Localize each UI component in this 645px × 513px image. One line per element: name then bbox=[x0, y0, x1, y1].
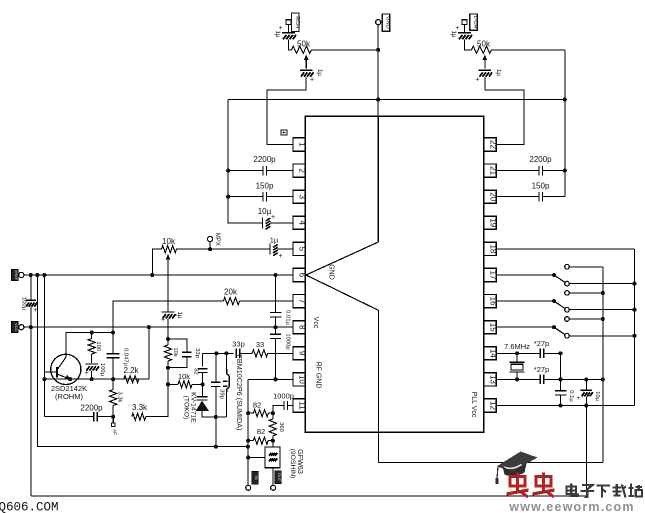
svg-text:100µ: 100µ bbox=[21, 297, 27, 311]
wire pin 13 row bbox=[496, 378, 540, 380]
junction xtal bottom bbox=[515, 377, 519, 381]
wire bus to 150p bbox=[228, 196, 263, 198]
capacitor 0.1u bbox=[555, 390, 574, 402]
capacitor 100u (rail) bbox=[21, 297, 38, 314]
svg-text:2200p: 2200p bbox=[529, 155, 552, 164]
wire pin10 row bbox=[248, 378, 293, 380]
wire wiper cap to pin 22 bbox=[485, 77, 524, 145]
junction base-vert/row bbox=[42, 377, 46, 381]
svg-text:1µ: 1µ bbox=[316, 69, 323, 76]
label Vcc box bbox=[12, 322, 19, 333]
svg-text:GND: GND bbox=[384, 16, 390, 28]
wire base bbox=[44, 371, 51, 373]
capacitor 10u (pll) bbox=[577, 390, 600, 402]
wire collector riser bbox=[113, 301, 223, 332]
wire 0.1u leads bbox=[560, 379, 562, 390]
label term2 bbox=[275, 471, 282, 484]
terminal GND bbox=[376, 20, 381, 25]
junction tune node bbox=[166, 337, 170, 341]
svg-text:+: + bbox=[271, 214, 275, 221]
wire VR1 to GND bus bbox=[312, 49, 379, 51]
svg-text:2200p: 2200p bbox=[253, 155, 276, 164]
junction pin10/bypass bbox=[273, 377, 277, 381]
capacitor 27p (pin 13) bbox=[534, 365, 549, 384]
wire 10k to pin6 row bbox=[152, 249, 161, 275]
wire 10u top lead bbox=[585, 379, 587, 390]
wire pin8 row bbox=[24, 326, 293, 328]
wire bus to 2200p bbox=[228, 170, 263, 172]
wire coil bottom bbox=[225, 392, 227, 417]
resistor 10k (tank) bbox=[164, 345, 178, 361]
svg-text:9: 9 bbox=[298, 351, 307, 356]
svg-text:+: + bbox=[161, 317, 165, 324]
svg-text:VCC: VCC bbox=[14, 323, 19, 332]
wire xtal leads bbox=[516, 353, 518, 362]
svg-text:RF GND: RF GND bbox=[315, 362, 322, 389]
svg-text:18: 18 bbox=[489, 244, 498, 253]
capacitor 100u (emitter) bbox=[84, 363, 105, 377]
pin 6 box bbox=[293, 268, 307, 281]
junction SW3 lower/pll bus bbox=[632, 334, 636, 338]
svg-text:15: 15 bbox=[489, 323, 498, 332]
resistor 2.2k bbox=[123, 366, 139, 383]
wire input vert bbox=[247, 379, 249, 485]
wire cap to pin 5 bbox=[278, 248, 294, 250]
svg-text:10k: 10k bbox=[162, 237, 176, 246]
svg-text:10µ: 10µ bbox=[258, 207, 272, 216]
wire filter top lead bbox=[272, 441, 274, 447]
svg-text:GND: GND bbox=[328, 264, 335, 280]
potentiometer 10k (MPX) body bbox=[162, 237, 177, 253]
wire pin6 row bbox=[24, 274, 293, 276]
resistor 33 bbox=[252, 340, 268, 357]
svg-text:50k: 50k bbox=[297, 40, 311, 49]
terminal filter in bbox=[246, 485, 251, 490]
pin 3 box bbox=[293, 190, 307, 203]
svg-text:2200p: 2200p bbox=[80, 404, 103, 413]
svg-text:11: 11 bbox=[298, 401, 307, 410]
junction tank bottom bbox=[214, 415, 218, 419]
wire base vertical bbox=[43, 275, 45, 417]
wire right bus bbox=[564, 50, 566, 197]
wire 100 top bbox=[91, 333, 93, 339]
junction collector corner bbox=[111, 330, 115, 334]
svg-text:82: 82 bbox=[253, 401, 261, 410]
wire cap to bus end bbox=[543, 196, 565, 198]
terminal Vcc bbox=[19, 325, 24, 330]
wire base vert to 2200p bbox=[44, 416, 93, 418]
wire emitter row bbox=[44, 378, 148, 380]
terminal B+ bbox=[19, 272, 24, 277]
svg-text:PLL Vcc: PLL Vcc bbox=[470, 392, 477, 418]
svg-text:12: 12 bbox=[489, 401, 498, 410]
crystal X1 7.6MHz bbox=[504, 342, 530, 372]
wire 1000p left bbox=[273, 406, 284, 414]
wire cap to right bus bbox=[543, 170, 565, 172]
junction bus/2200p bbox=[226, 169, 230, 173]
svg-text:13: 13 bbox=[489, 375, 498, 384]
pin 2 box bbox=[293, 164, 307, 177]
svg-text:3.3k: 3.3k bbox=[132, 403, 148, 412]
svg-text:100µ: 100µ bbox=[99, 363, 105, 377]
wire bypass mid bbox=[275, 317, 277, 334]
resistor 100 bbox=[88, 339, 101, 355]
svg-text:+: + bbox=[310, 77, 314, 84]
wire 10u to pin 4 bbox=[270, 222, 293, 224]
wire 27p to corner bbox=[544, 353, 561, 379]
svg-text:www.eeworm.com: www.eeworm.com bbox=[508, 500, 634, 513]
wire rail cap to bottom bus bbox=[30, 307, 32, 496]
junction 10u/pin12 bbox=[584, 403, 588, 407]
terminal pad R-CH bbox=[286, 20, 291, 25]
pin 7 box bbox=[293, 295, 307, 308]
pin 9 box bbox=[293, 347, 307, 360]
svg-text:10: 10 bbox=[298, 375, 307, 384]
svg-text:360: 360 bbox=[278, 422, 284, 432]
wire 0.047u top bbox=[112, 333, 114, 354]
capacitor 1u (L-CH wiper) bbox=[475, 69, 502, 84]
svg-text:FBM10C2P6 (SUMIDA): FBM10C2P6 (SUMIDA) bbox=[235, 355, 244, 431]
wire 2200p to 3.3k node bbox=[97, 416, 113, 418]
IC GND wedge bbox=[306, 116, 378, 462]
capacitor 2200p (feedback) bbox=[80, 404, 103, 422]
junction coil/pin9 row bbox=[224, 351, 228, 355]
wire R-CH pad to C1 bbox=[288, 25, 290, 33]
svg-text:6: 6 bbox=[298, 273, 307, 278]
junction bus/150p bbox=[226, 195, 230, 199]
wire 1u to tune node bbox=[167, 319, 169, 339]
wire 150p to pin 3 bbox=[267, 196, 294, 198]
wire 10k-h right lead bbox=[192, 383, 203, 385]
label R-CH bbox=[292, 13, 300, 31]
wire rail cap top bbox=[30, 275, 32, 300]
label RF GND (IC) bbox=[315, 362, 322, 389]
switch SW1 (pin 17) bbox=[496, 265, 634, 286]
junction rail/bus bbox=[35, 273, 39, 277]
svg-text:33p: 33p bbox=[232, 340, 245, 349]
page id Q606.COM bbox=[0, 501, 59, 513]
junction GND/VR1 bbox=[376, 48, 380, 52]
label B+ box bbox=[12, 269, 19, 280]
svg-text:*27p: *27p bbox=[534, 339, 549, 348]
wire 3.3k-v top bbox=[112, 379, 114, 389]
svg-text:OUT: OUT bbox=[277, 473, 282, 482]
switch SW3 (pin 15) bbox=[496, 317, 634, 338]
svg-text:150p: 150p bbox=[256, 182, 274, 191]
pin 17 box bbox=[484, 268, 498, 281]
wire 39p bottom bbox=[215, 387, 217, 417]
junction 360/filter bbox=[271, 439, 275, 443]
varactor D1 KV-1471E bbox=[196, 397, 210, 411]
svg-text:50k: 50k bbox=[477, 40, 491, 49]
svg-text:150p: 150p bbox=[532, 182, 550, 191]
wire 82a leads bbox=[248, 412, 253, 414]
capacitor 150p (pin 20) bbox=[532, 182, 550, 202]
inductor FBM10C2P6 bbox=[223, 369, 230, 392]
svg-text:82: 82 bbox=[257, 427, 265, 436]
IC U1 body bbox=[305, 116, 484, 432]
wire bottom bus bbox=[31, 495, 587, 497]
capacitor 2200p (pin 2) bbox=[253, 155, 276, 175]
wire MPX to row bbox=[209, 242, 211, 250]
wire VR2 to right bus bbox=[492, 49, 565, 51]
label FBM10C2P6 (SUMIDA) bbox=[235, 355, 244, 431]
wire pin 13 row b bbox=[544, 378, 603, 380]
pin 19 box bbox=[484, 216, 498, 229]
wire collector bbox=[66, 333, 113, 358]
svg-text:4: 4 bbox=[298, 221, 307, 226]
wire pin 14 row bbox=[496, 352, 540, 354]
pin 21 box bbox=[484, 164, 498, 177]
svg-text:14: 14 bbox=[489, 349, 498, 358]
wire 0.1u bottom bbox=[560, 395, 562, 406]
svg-text:L-CH: L-CH bbox=[472, 16, 478, 29]
capacitor 1u (R-CH wiper) bbox=[300, 69, 323, 84]
wire 360 top lead bbox=[272, 413, 274, 419]
svg-text:GFW63: GFW63 bbox=[296, 449, 305, 474]
pin 16 box bbox=[484, 295, 498, 308]
junction varactor node bbox=[201, 382, 205, 386]
resistor 10k (afc) bbox=[178, 372, 192, 388]
potentiometer VR2 50k body bbox=[472, 40, 492, 54]
label L-CH bbox=[470, 14, 478, 30]
junction 27p corner bbox=[558, 351, 562, 355]
junction vcc/leftbus bbox=[29, 325, 33, 329]
svg-text:0.047µ: 0.047µ bbox=[123, 348, 129, 367]
junction right bus/top row bbox=[563, 97, 567, 101]
svg-text:17: 17 bbox=[489, 271, 498, 280]
capacitor 1u (L-CH input) bbox=[450, 25, 472, 39]
wire 2.2k to vcc bbox=[148, 327, 150, 379]
wire MPX row to cap bbox=[176, 248, 270, 250]
svg-text:33: 33 bbox=[256, 340, 264, 349]
junction long row end bbox=[246, 445, 250, 449]
junction 0.047u/row bbox=[111, 377, 115, 381]
wire left cap bus bbox=[228, 100, 262, 223]
junction SW2 upper/gnd bus bbox=[601, 291, 605, 295]
capacitor 39p bbox=[211, 382, 224, 399]
wire 2200p to pin 2 bbox=[267, 170, 294, 172]
wire 10k-v bottom bbox=[167, 361, 169, 368]
capacitor 27p (pin 14) bbox=[534, 339, 549, 358]
label GND (IC) bbox=[328, 264, 335, 280]
wire node down bbox=[167, 368, 169, 385]
svg-text:1000p: 1000p bbox=[284, 333, 290, 349]
junction drop/long row bbox=[214, 445, 218, 449]
wire IC gnd return bbox=[378, 462, 602, 464]
svg-text:100: 100 bbox=[95, 341, 101, 351]
wire 33p bottom bbox=[168, 357, 187, 368]
junction xtal top bbox=[515, 351, 519, 355]
svg-text:39p: 39p bbox=[218, 389, 224, 399]
junction gnd bus/pin13 row bbox=[601, 377, 605, 381]
svg-text:MPX: MPX bbox=[214, 233, 220, 246]
wire GND terminal down to IC bbox=[377, 25, 379, 117]
capacitor 0.01u bbox=[270, 310, 291, 325]
label GFW63 (9OSHIN) bbox=[289, 449, 305, 479]
capacitor 2200p (pin 21) bbox=[529, 155, 552, 175]
svg-text:+: + bbox=[84, 370, 88, 377]
terminal filter out bbox=[271, 485, 276, 490]
pin 15 box bbox=[484, 321, 498, 334]
svg-text:21: 21 bbox=[489, 166, 498, 175]
label 2SD2142K bbox=[51, 384, 87, 401]
capacitor 0.047u bbox=[107, 348, 129, 367]
junction filter in bbox=[246, 455, 250, 459]
wire xtal bottom bbox=[516, 372, 518, 380]
svg-text:82: 82 bbox=[192, 368, 198, 374]
wire 3.3k to corner bbox=[146, 384, 168, 416]
resistor 3.3k (horizontal) bbox=[132, 403, 148, 420]
pin 13 box bbox=[484, 373, 498, 386]
wire coil top bbox=[225, 353, 227, 369]
wire 82b right lead bbox=[268, 440, 273, 442]
svg-text:16: 16 bbox=[489, 297, 498, 306]
pin 18 box bbox=[484, 242, 498, 255]
svg-text:(TOKO): (TOKO) bbox=[183, 396, 190, 420]
junction 0.1u top bbox=[558, 377, 562, 381]
10k wiper arrow bbox=[166, 254, 171, 261]
junction GND/top row bbox=[376, 97, 380, 101]
terminal pad L-CH bbox=[462, 20, 467, 25]
junction collector/100R bbox=[90, 330, 94, 334]
VR1 wiper arrow bbox=[304, 55, 309, 69]
wire varactor bottom bbox=[202, 411, 226, 417]
wire outer-left bus bbox=[37, 275, 248, 447]
label Vcc (IC) bbox=[312, 317, 319, 329]
junction vcc/bypass bbox=[273, 325, 277, 329]
label MPX bbox=[214, 233, 220, 246]
junction SW1 lower/pll bus bbox=[632, 282, 636, 286]
wire 33p-33 bbox=[240, 352, 252, 354]
label GND bbox=[382, 14, 390, 31]
wire pin 12 row bbox=[496, 405, 634, 407]
svg-text:AF: AF bbox=[111, 429, 117, 435]
svg-text:(9OSHIN): (9OSHIN) bbox=[289, 449, 296, 479]
svg-text:10k: 10k bbox=[178, 372, 190, 381]
wire 10k-h left lead bbox=[168, 383, 178, 385]
capacitor 1000p (pin8) bbox=[270, 333, 290, 349]
junction SW3 upper/gnd bus bbox=[601, 317, 605, 321]
capacitor 82 (tank) bbox=[192, 368, 207, 374]
wire 0.047u bottom bbox=[112, 358, 114, 379]
pin 12 box bbox=[484, 399, 498, 412]
resistor 20k bbox=[223, 288, 239, 305]
wire 20k to pin 7 bbox=[240, 300, 294, 302]
svg-text:2.2k: 2.2k bbox=[123, 366, 139, 375]
junction 82a left bbox=[246, 411, 250, 415]
junction rail/cap bbox=[29, 273, 33, 277]
svg-text:10µ: 10µ bbox=[594, 391, 600, 401]
svg-text:+: + bbox=[33, 307, 37, 314]
watermark site name bbox=[567, 484, 643, 498]
junction 39p/pin9 row bbox=[214, 351, 218, 355]
wire 33 to pin 9 bbox=[268, 352, 293, 354]
svg-text:7.6MHz: 7.6MHz bbox=[504, 342, 530, 351]
transistor Q1 2SD2142K bbox=[51, 354, 81, 384]
pin 1 box bbox=[293, 138, 307, 151]
wire pin9 row bbox=[203, 352, 234, 354]
label KV-1471E (TOKO) bbox=[183, 392, 197, 423]
junction 10k/pin6 row bbox=[150, 273, 154, 277]
wire 360 bottom lead bbox=[272, 436, 274, 441]
polarity mark near pin 1 bbox=[281, 130, 287, 135]
svg-text:+: + bbox=[577, 395, 581, 402]
watermark url bbox=[508, 500, 634, 513]
svg-text:22: 22 bbox=[489, 140, 498, 149]
svg-text:+: + bbox=[475, 77, 479, 84]
terminal MPX bbox=[208, 236, 213, 241]
capacitor 1000p (pin 11) bbox=[273, 392, 294, 411]
svg-text:1µ: 1µ bbox=[176, 311, 183, 318]
pin 8 box bbox=[293, 321, 307, 334]
wire C2 to VR2 bbox=[465, 40, 472, 50]
svg-text:+: + bbox=[278, 253, 282, 260]
wire switch gnd bus bbox=[602, 267, 604, 463]
junction bus 2200p bbox=[563, 169, 567, 173]
wire 39p top bbox=[215, 353, 217, 382]
wire wiper cap to pin 1 bbox=[267, 77, 306, 145]
svg-text:10k: 10k bbox=[172, 347, 178, 356]
switch SW2 (pin 16) bbox=[496, 291, 634, 312]
pin 20 box bbox=[484, 190, 498, 203]
wire C1 to VR1 bbox=[289, 40, 292, 50]
wire 10u bottom bbox=[585, 396, 587, 496]
wire bypass top bbox=[275, 275, 277, 312]
wire 3.3k-v bottom bbox=[112, 406, 114, 417]
svg-text:20k: 20k bbox=[224, 288, 238, 297]
junction 10u top bbox=[584, 377, 588, 381]
wire 82c bottom bbox=[202, 373, 204, 385]
svg-text:19: 19 bbox=[489, 218, 498, 227]
pin 10 box bbox=[293, 373, 307, 386]
VR2 wiper arrow bbox=[482, 55, 487, 69]
junction pin6/bypass bbox=[273, 273, 277, 277]
junction MPX row bbox=[208, 247, 212, 251]
junction rail/base bbox=[42, 273, 46, 277]
junction 100u/row bbox=[90, 377, 94, 381]
capacitor 33p (parallel) bbox=[182, 348, 200, 358]
watermark cap logo bbox=[495, 452, 537, 485]
junction 0.1u/pin12 bbox=[558, 403, 562, 407]
svg-text:1µ: 1µ bbox=[270, 236, 279, 245]
pin 22 box bbox=[484, 138, 498, 151]
junction vcc/2.2k bbox=[147, 325, 151, 329]
pin 5 box bbox=[293, 242, 307, 255]
svg-text:RCH: RCH bbox=[294, 16, 300, 28]
svg-text:Q606.COM: Q606.COM bbox=[0, 501, 59, 513]
svg-text:3: 3 bbox=[298, 194, 307, 199]
svg-text:0.01µ: 0.01µ bbox=[284, 310, 290, 325]
wire L-CH pad to C2 bbox=[464, 25, 466, 33]
ceramic filter GFW63 bbox=[265, 447, 280, 468]
resistor 360 bbox=[269, 419, 284, 436]
junction 10k-h left bbox=[166, 382, 170, 386]
capacitor 1u (pin 5) bbox=[270, 236, 283, 261]
svg-text:20: 20 bbox=[489, 192, 498, 201]
capacitor 150p (pin 3) bbox=[256, 182, 274, 202]
wire 82c top bbox=[202, 354, 204, 367]
wire filter bottom bbox=[272, 468, 274, 486]
junction SW2 lower/pll bus bbox=[632, 308, 636, 312]
junction 33p bottom bbox=[166, 366, 170, 370]
svg-text:IN: IN bbox=[254, 476, 259, 480]
watermark chongchong text bbox=[507, 473, 555, 498]
capacitor 10u (pin 4) bbox=[258, 207, 275, 229]
junction emitter/row bbox=[68, 377, 72, 381]
svg-text:Vcc: Vcc bbox=[312, 317, 319, 329]
svg-text:2: 2 bbox=[298, 168, 307, 173]
